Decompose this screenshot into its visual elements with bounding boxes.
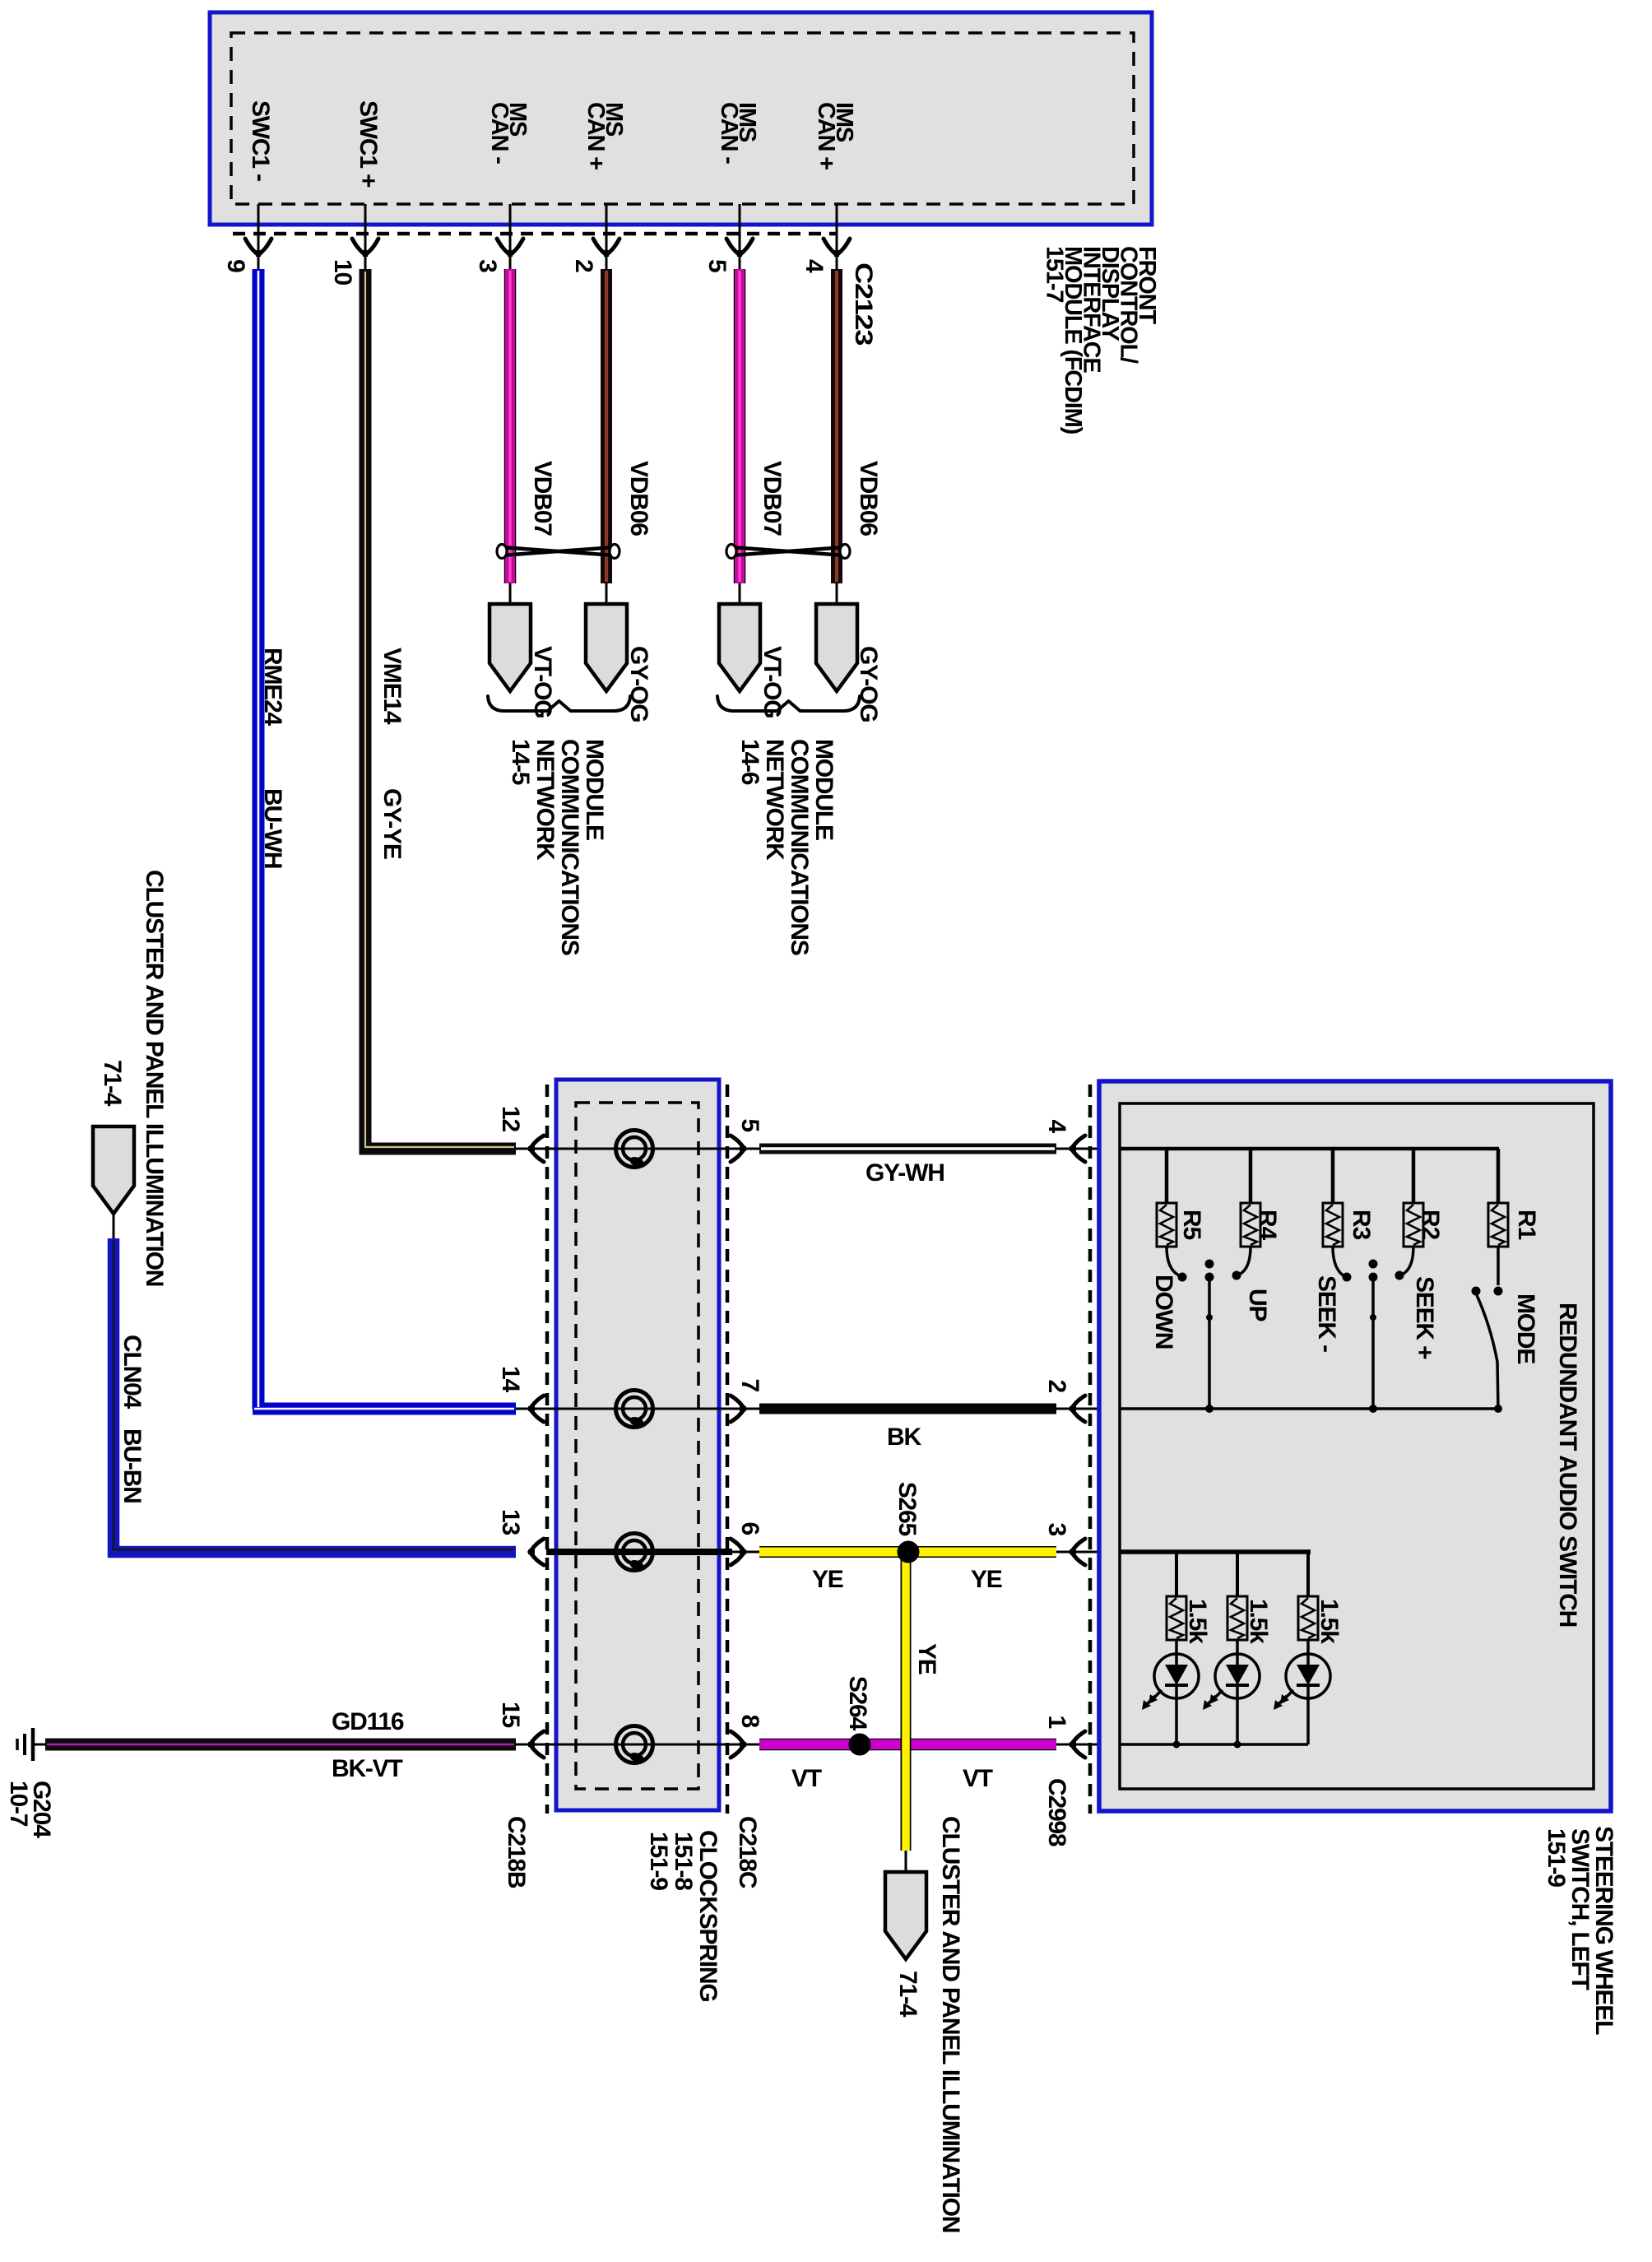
svg-text:REDUNDANT AUDIO SWITCH: REDUNDANT AUDIO SWITCH <box>1554 1303 1581 1627</box>
label GY-WH <box>865 1159 944 1187</box>
resistor 1.5k #1 <box>1167 1596 1186 1640</box>
switch pin 4 lead <box>1056 1148 1120 1150</box>
svg-text:9: 9 <box>222 259 249 272</box>
label DOWN <box>1150 1275 1177 1349</box>
LED branch 2 stub <box>1236 1552 1239 1596</box>
switch pin 3 arrow <box>1070 1539 1085 1565</box>
label YE (vertical wire) <box>913 1643 940 1674</box>
svg-text:CAN +: CAN + <box>813 102 839 170</box>
clockspring pin 12 arrow <box>528 1136 544 1162</box>
clockspring pin 15 number <box>497 1702 524 1727</box>
svg-text:VT: VT <box>963 1765 993 1792</box>
clockspring pin 14 number <box>497 1366 524 1392</box>
pin label IMS CAN - <box>716 102 760 164</box>
svg-text:COMMUNICATIONS: COMMUNICATIONS <box>556 739 583 955</box>
svg-text:8: 8 <box>736 1715 763 1728</box>
label VDB07 pin5 <box>759 461 786 536</box>
LED 3 <box>1274 1654 1330 1710</box>
svg-text:CLUSTER AND PANEL ILLUMINATION: CLUSTER AND PANEL ILLUMINATION <box>141 870 168 1286</box>
svg-text:YE: YE <box>812 1566 843 1593</box>
label R2 <box>1417 1210 1444 1239</box>
switch SEEK+ contact <box>1395 1247 1414 1280</box>
pin 5 arrow <box>726 239 753 257</box>
label C2998 <box>1043 1778 1070 1846</box>
label BU-WH <box>259 788 286 868</box>
svg-text:VDB07: VDB07 <box>759 461 786 536</box>
switch SEEK- contact <box>1333 1247 1352 1282</box>
clockspring pin 13 arrow <box>528 1539 544 1565</box>
svg-text:SEEK +: SEEK + <box>1411 1276 1438 1359</box>
ground G204 symbol <box>17 1728 48 1761</box>
svg-text:CAN +: CAN + <box>582 102 609 170</box>
resistor R2 <box>1404 1203 1423 1247</box>
svg-text:R5: R5 <box>1178 1210 1205 1239</box>
svg-text:BK: BK <box>887 1424 921 1451</box>
switch pole DOWN/UP <box>1205 1260 1214 1414</box>
wire CLN04 BU-BN to clockspring pin13 <box>114 1238 516 1552</box>
switch pin 3 lead <box>1056 1551 1120 1554</box>
svg-text:1.5k: 1.5k <box>1245 1599 1272 1644</box>
label S264 <box>844 1676 871 1731</box>
clockspring row 13-6 line <box>546 1549 759 1555</box>
resistor 1.5k #3 <box>1298 1596 1318 1640</box>
svg-text:10: 10 <box>329 259 356 285</box>
pin 4 arrow <box>824 239 850 257</box>
connector C218B dashed line <box>545 1085 550 1814</box>
pin label SWC1- <box>247 100 274 181</box>
label VT (right) <box>963 1765 993 1792</box>
pin 2 stub wire <box>606 204 608 272</box>
label GY-YE <box>378 788 406 859</box>
wire VDB07 VT-OG pin3 <box>504 269 517 583</box>
switch UP contact <box>1232 1247 1251 1280</box>
label MODULE COMMUNICATIONS NETWORK 14-5 <box>507 739 608 955</box>
switch pin 2 arrow <box>1070 1396 1085 1422</box>
svg-text:14: 14 <box>497 1366 524 1392</box>
label SEEK - <box>1313 1275 1340 1352</box>
svg-text:UP: UP <box>1244 1289 1271 1321</box>
svg-text:15: 15 <box>497 1702 524 1727</box>
label R1 <box>1513 1210 1540 1239</box>
svg-text:151-9: 151-9 <box>645 1832 672 1890</box>
svg-text:R3: R3 <box>1348 1210 1375 1239</box>
label BU-BN <box>118 1428 146 1503</box>
label R3 <box>1348 1210 1375 1239</box>
label R5 <box>1178 1210 1205 1239</box>
label BK-VT <box>332 1755 403 1782</box>
svg-text:4: 4 <box>1043 1120 1070 1134</box>
svg-text:2: 2 <box>570 259 597 272</box>
clockspring pin 5 arrow <box>731 1136 746 1162</box>
switch MODE lever <box>1472 1287 1503 1414</box>
clockspring pin 8 number <box>736 1715 763 1728</box>
label 71-4 (bottom) <box>894 1971 921 2018</box>
pin 4 number <box>800 259 828 273</box>
LED 1 anode lead <box>1175 1640 1178 1665</box>
switch pin 1 lead <box>1056 1744 1120 1746</box>
svg-text:VME14: VME14 <box>378 648 406 725</box>
module FCDIM name label <box>1042 246 1161 434</box>
label UP <box>1244 1289 1271 1321</box>
connector pin3 (module comms) <box>490 604 531 691</box>
LED 2 cathode lead <box>1236 1685 1239 1744</box>
svg-text:SWC1 +: SWC1 + <box>355 100 382 188</box>
splice S264 <box>849 1734 871 1756</box>
label GY-OG pin4 <box>855 646 882 722</box>
switch pin 1 number <box>1043 1716 1070 1729</box>
LED 2 anode lead <box>1236 1640 1239 1665</box>
svg-text:BU-WH: BU-WH <box>259 788 286 868</box>
pin 9 arrow <box>245 239 271 257</box>
LED bus (pin 3 row) <box>1120 1549 1311 1554</box>
label GD116 <box>332 1708 404 1735</box>
wire YE clockspring6 to switch3 <box>759 1546 1056 1558</box>
svg-text:6: 6 <box>736 1522 763 1535</box>
connector C2123 label <box>850 262 877 346</box>
svg-text:MODE: MODE <box>1512 1294 1539 1363</box>
pin 2 arrow <box>593 239 619 257</box>
switch pin 3 number <box>1043 1523 1070 1536</box>
svg-text:3: 3 <box>474 259 501 272</box>
svg-text:RME24: RME24 <box>259 648 286 727</box>
clockspring pin 12 number <box>497 1106 524 1131</box>
svg-text:SEEK -: SEEK - <box>1313 1275 1340 1352</box>
label G204 10-7 <box>5 1781 55 1838</box>
svg-text:5: 5 <box>736 1119 763 1132</box>
clockspring pin 7 number <box>736 1379 763 1392</box>
clockspring pin 14 arrow <box>528 1396 544 1422</box>
label YE (left) <box>812 1566 843 1593</box>
svg-text:71-4: 71-4 <box>99 1060 126 1107</box>
label C218B <box>503 1816 530 1888</box>
svg-text:NETWORK: NETWORK <box>761 739 788 861</box>
label RME24 <box>259 648 286 727</box>
label MODULE COMMUNICATIONS NETWORK 14-6 <box>736 739 838 955</box>
svg-text:VT: VT <box>791 1765 822 1792</box>
switch pin 2 lead <box>1056 1408 1120 1410</box>
pin 9 stub wire <box>258 204 260 272</box>
svg-text:CAN -: CAN - <box>716 102 742 164</box>
clockspring pin 15 arrow <box>528 1731 544 1758</box>
LED branch 3 stub <box>1306 1552 1310 1596</box>
label 1.5k #2 <box>1245 1599 1272 1644</box>
svg-text:CLUSTER AND PANEL ILLUMINATION: CLUSTER AND PANEL ILLUMINATION <box>937 1816 964 2232</box>
pin 3 stub wire <box>509 204 512 272</box>
label 1.5k #3 <box>1316 1599 1343 1644</box>
lead YE to 71-4 connector <box>905 1851 907 1874</box>
LED cathode rail (pin 1 row) <box>1120 1741 1308 1749</box>
switch resistor bus <box>1120 1147 1499 1151</box>
label YE (right) <box>971 1566 1002 1593</box>
pin 10 arrow <box>352 239 378 257</box>
svg-text:R1: R1 <box>1513 1210 1540 1239</box>
label VT (left) <box>791 1765 822 1792</box>
svg-text:R2: R2 <box>1417 1210 1444 1239</box>
svg-text:C2998: C2998 <box>1043 1778 1070 1846</box>
svg-text:C2123: C2123 <box>850 262 877 346</box>
LED 3 cathode lead <box>1306 1685 1310 1744</box>
clockspring box <box>556 1080 719 1810</box>
clockspring coil row 14-7 <box>616 1391 653 1429</box>
resistor R5 <box>1157 1203 1176 1247</box>
svg-text:GY-YE: GY-YE <box>378 788 406 859</box>
pin label MS CAN + <box>582 102 627 170</box>
redundant audio switch box <box>1099 1081 1611 1811</box>
pin 3 number <box>474 259 501 272</box>
connector pin2 (module comms) <box>586 604 627 691</box>
label BK <box>887 1424 921 1451</box>
svg-text:1: 1 <box>1043 1716 1070 1729</box>
pin4 lead to connector <box>836 583 838 606</box>
clockspring inner dashed border <box>576 1103 698 1789</box>
switch pin 4 number <box>1043 1120 1070 1134</box>
svg-text:14-6: 14-6 <box>736 739 763 785</box>
svg-text:BU-BN: BU-BN <box>118 1428 146 1503</box>
wire VDB07 VT-OG pin5 <box>734 269 746 583</box>
pin 3 arrow <box>497 239 523 257</box>
svg-text:GY-WH: GY-WH <box>865 1159 944 1187</box>
resistor R2 stub <box>1412 1149 1416 1203</box>
svg-text:YE: YE <box>913 1643 940 1674</box>
connector C2998 dashed line <box>1088 1085 1093 1814</box>
pin 4 stub wire <box>836 204 838 272</box>
switch inner border <box>1120 1103 1594 1789</box>
label 71-4 (left) <box>99 1060 126 1107</box>
svg-text:151-9: 151-9 <box>1543 1828 1570 1887</box>
twisted pair symbol pins 3-2 <box>497 545 619 559</box>
svg-text:1.5k: 1.5k <box>1316 1599 1343 1644</box>
clockspring coil row 12-5 <box>616 1131 653 1169</box>
pin2 lead to connector <box>606 583 608 606</box>
svg-text:GD116: GD116 <box>332 1708 404 1735</box>
label MODE <box>1512 1294 1539 1363</box>
pin 5 stub wire <box>739 204 741 272</box>
label GY-OG pin2 <box>625 646 652 722</box>
label REDUNDANT AUDIO SWITCH <box>1554 1303 1581 1627</box>
svg-text:YE: YE <box>971 1566 1002 1593</box>
connector 71-4 (left) <box>93 1126 134 1214</box>
clockspring pin 8 arrow <box>731 1731 746 1758</box>
wire VT clockspring8 to switch1 <box>759 1739 1056 1751</box>
wire YE splice S265 to 71-4 connector <box>901 1552 912 1851</box>
connector pin5 (module comms) <box>719 604 760 691</box>
resistor 1.5k #2 <box>1227 1596 1247 1640</box>
clockspring coil row 15-8 <box>616 1726 653 1765</box>
svg-text:CAN -: CAN - <box>486 102 513 164</box>
svg-text:COMMUNICATIONS: COMMUNICATIONS <box>786 739 813 955</box>
wire GD116 BK-VT ground to clockspring pin15 <box>45 1739 516 1751</box>
LED 3 anode lead <box>1306 1640 1310 1665</box>
wire VME14 GY-YE pin10 to clockspring pin12 <box>365 269 516 1149</box>
pin label SWC1+ <box>355 100 382 188</box>
pin 9 number <box>222 259 249 272</box>
pin label MS CAN - <box>486 102 531 164</box>
switch pole SEEK-/SEEK+ <box>1369 1260 1378 1414</box>
label STEERING WHEEL SWITCH LEFT 151-9 <box>1543 1826 1617 2035</box>
label CLN04 <box>118 1335 146 1410</box>
wire RME24 BU-WH pin9 to clockspring pin14 <box>253 269 516 1409</box>
svg-text:CLN04: CLN04 <box>118 1335 146 1410</box>
label VDB06 pin2 <box>625 461 652 536</box>
svg-text:R4: R4 <box>1254 1210 1281 1240</box>
svg-text:13: 13 <box>497 1509 524 1535</box>
connector C218C dashed line <box>726 1085 730 1814</box>
label C218C <box>734 1816 761 1888</box>
clockspring row 15-8 line <box>516 1744 759 1746</box>
label R4 <box>1254 1210 1281 1240</box>
clockspring pin 7 arrow <box>731 1396 746 1422</box>
LED 2 <box>1203 1654 1260 1710</box>
svg-text:S265: S265 <box>893 1482 921 1536</box>
label VT-OG pin3 <box>529 646 556 718</box>
twisted pair symbol pins 5-4 <box>726 545 850 559</box>
svg-text:GY-OG: GY-OG <box>625 646 652 722</box>
connector C2123 dashed line <box>233 232 836 236</box>
svg-text:12: 12 <box>497 1106 524 1131</box>
svg-text:NETWORK: NETWORK <box>531 739 559 861</box>
label VME14 <box>378 648 406 725</box>
svg-text:151-8: 151-8 <box>670 1832 697 1890</box>
svg-text:CLOCKSPRING: CLOCKSPRING <box>694 1830 722 2001</box>
lead from 71-4 connector <box>113 1214 115 1241</box>
wire BK clockspring7 to switch2 <box>759 1404 1056 1414</box>
svg-text:10-7: 10-7 <box>5 1781 32 1827</box>
clockspring row 12-5 line <box>516 1148 759 1150</box>
switch common bus (pin 2 row) <box>1120 1407 1499 1410</box>
connector 71-4 (bottom) <box>885 1872 926 1959</box>
connector pin4 (module comms) <box>816 604 857 691</box>
svg-text:C218C: C218C <box>734 1816 761 1888</box>
resistor R3 stub <box>1331 1149 1335 1203</box>
label S265 <box>893 1482 921 1536</box>
resistor R5 stub <box>1165 1149 1169 1203</box>
wire VDB06 GY-OG pin4 <box>831 269 842 583</box>
label VDB07 pin3 <box>529 461 556 536</box>
svg-text:S264: S264 <box>844 1676 871 1731</box>
switch pin 4 arrow <box>1070 1136 1085 1162</box>
module FCDIM box <box>210 12 1152 225</box>
clockspring pin 6 number <box>736 1522 763 1535</box>
svg-text:2: 2 <box>1043 1380 1070 1393</box>
switch DOWN contact <box>1167 1247 1187 1282</box>
label VT-OG pin5 <box>759 646 786 718</box>
label VDB06 pin4 <box>855 461 882 536</box>
LED 1 <box>1142 1654 1199 1710</box>
resistor R1 <box>1488 1203 1508 1247</box>
resistor R4 <box>1241 1203 1260 1247</box>
svg-text:BK-VT: BK-VT <box>332 1755 403 1782</box>
svg-text:DOWN: DOWN <box>1150 1275 1177 1349</box>
clockspring pin 6 arrow <box>731 1539 746 1565</box>
pin 5 number <box>703 259 731 272</box>
resistor R3 <box>1323 1203 1343 1247</box>
brace module comms network 14-5 <box>488 696 630 711</box>
svg-text:VDB07: VDB07 <box>529 461 556 536</box>
svg-text:3: 3 <box>1043 1523 1070 1536</box>
clockspring row 14-7 line <box>516 1408 759 1410</box>
clockspring coil row 13-6 <box>616 1534 653 1572</box>
pin 10 stub wire <box>364 204 367 272</box>
svg-text:1.5k: 1.5k <box>1184 1599 1211 1644</box>
svg-text:7: 7 <box>736 1379 763 1392</box>
resistor R1 stub <box>1497 1149 1501 1203</box>
switch pin 1 arrow <box>1070 1731 1085 1758</box>
label SEEK + <box>1411 1276 1438 1359</box>
switch MODE contact <box>1494 1247 1503 1296</box>
label 1.5k #1 <box>1184 1599 1211 1644</box>
svg-text:71-4: 71-4 <box>894 1971 921 2018</box>
LED branch 1 stub <box>1175 1552 1178 1596</box>
module FCDIM inner dashed border <box>231 33 1134 204</box>
label CLUSTER AND PANEL ILLUMINATION (bottom) <box>937 1816 964 2232</box>
svg-text:14-5: 14-5 <box>507 739 534 785</box>
clockspring pin 5 number <box>736 1119 763 1132</box>
pin5 lead to connector <box>739 583 741 606</box>
label CLUSTER AND PANEL ILLUMINATION (left) <box>141 870 168 1286</box>
wire GY-WH clockspring5 to switch4 <box>759 1144 1056 1154</box>
clockspring pin 13 number <box>497 1509 524 1535</box>
svg-text:C218B: C218B <box>503 1816 530 1888</box>
wire VDB06 GY-OG pin2 <box>601 269 612 583</box>
pin 2 number <box>570 259 597 272</box>
label CLOCKSPRING 151-8 151-9 <box>645 1830 722 2001</box>
svg-text:MODULE: MODULE <box>581 739 608 840</box>
pin label IMS CAN + <box>813 102 857 170</box>
svg-text:5: 5 <box>703 259 731 272</box>
brace module comms network 14-6 <box>717 696 860 711</box>
svg-text:4: 4 <box>800 259 828 273</box>
svg-text:MODULE: MODULE <box>810 739 838 840</box>
svg-text:VDB06: VDB06 <box>855 461 882 536</box>
svg-text:151-7: 151-7 <box>1042 246 1068 302</box>
svg-text:SWC1 -: SWC1 - <box>247 100 274 181</box>
svg-text:VDB06: VDB06 <box>625 461 652 536</box>
resistor R4 stub <box>1249 1149 1253 1203</box>
switch pin 2 number <box>1043 1380 1070 1393</box>
pin3 lead to connector <box>509 583 512 606</box>
pin 10 number <box>329 259 356 285</box>
LED 1 cathode lead <box>1175 1685 1178 1744</box>
splice S265 <box>898 1541 920 1563</box>
